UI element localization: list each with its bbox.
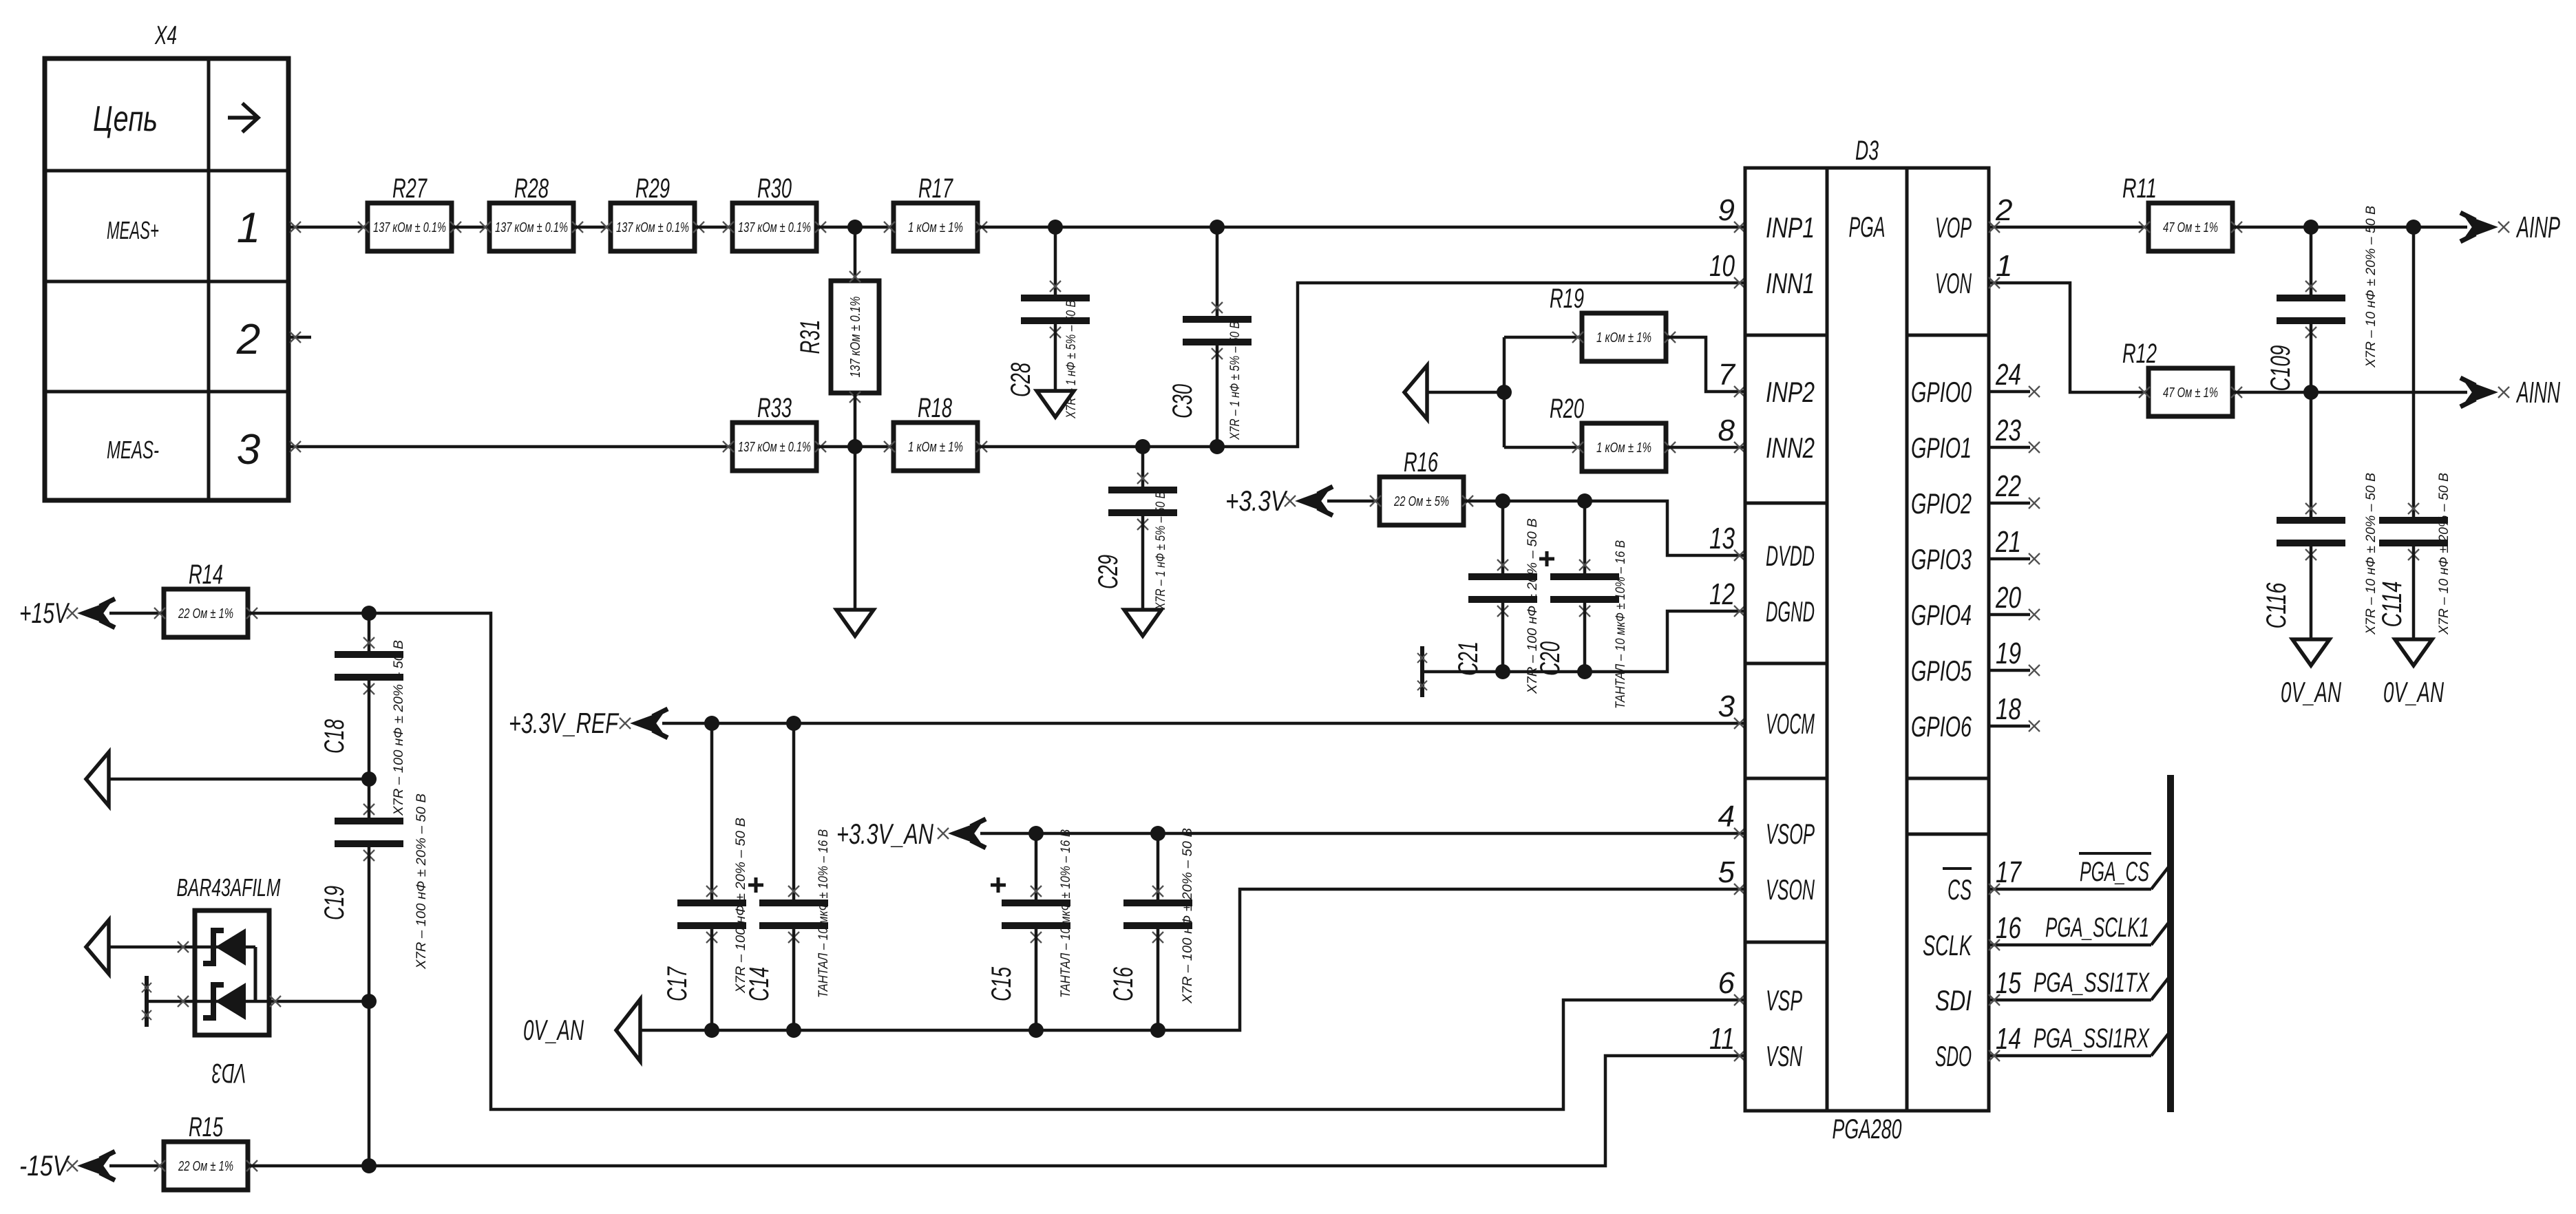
svg-text:R12: R12 [2122,339,2157,369]
svg-text:2: 2 [236,316,260,363]
resistor R31 [795,227,879,447]
pin 21 GPIO3 [1911,525,2021,575]
pin 20 GPIO4 [1911,581,2021,631]
svg-text:GPIO3: GPIO3 [1911,543,1972,575]
terminal [1417,646,1427,697]
pin 2 VOP [1935,193,2012,244]
resistor R16 [1370,447,1473,525]
X4 pin 1 wire [288,222,368,233]
svg-text:X7R – 10 нФ ± 20% – 50 В: X7R – 10 нФ ± 20% – 50 В [2364,206,2378,368]
resistor R29 [601,173,704,251]
net +3.3V_REF [509,707,1745,739]
svg-text:R31: R31 [795,320,825,354]
resistor R17 [884,173,987,251]
svg-text:MEAS-: MEAS- [107,436,159,464]
svg-text:9: 9 [1718,193,1735,227]
svg-text:X4: X4 [154,21,177,50]
net AINN [2460,376,2560,409]
wire PGA_SSI1RX [1989,1023,2171,1061]
pin 12 DGND [1709,577,1815,628]
pin 14 SDO [1935,1022,2021,1072]
svg-text:22: 22 [1995,469,2021,503]
pin 22 GPIO2 [1911,469,2021,520]
ground [1124,610,1161,636]
X4 pin 3 wire [288,441,732,452]
svg-text:SDI: SDI [1935,984,1972,1016]
svg-text:R33: R33 [757,393,792,423]
node arrow [86,920,109,974]
net +15V [19,597,164,629]
svg-text:C19: C19 [319,886,350,920]
wire [694,226,732,229]
resistor R30 [723,173,826,251]
svg-text:DGND: DGND [1766,595,1815,628]
svg-text:10: 10 [1709,249,1735,283]
svg-text:PGA_SCLK1: PGA_SCLK1 [2045,913,2149,943]
svg-text:PGA: PGA [1849,211,1886,243]
capacitor C14 [744,723,831,1030]
op-amp U1 / IC D3 PGA280 [1745,136,1989,1144]
capacitor C19 [319,779,429,1173]
svg-text:R18: R18 [918,393,953,423]
svg-text:6: 6 [1718,966,1735,1000]
svg-text:137 кОм ± 0.1%: 137 кОм ± 0.1% [738,220,811,235]
svg-text:1 кОм ± 1%: 1 кОм ± 1% [1596,440,1651,456]
svg-text:5: 5 [1718,855,1735,889]
pin 10 INN1 [1709,249,1815,299]
svg-text:C29: C29 [1093,555,1123,589]
svg-text:GPIO1: GPIO1 [1911,432,1972,464]
svg-text:R14: R14 [189,560,223,590]
pin 4 VSOP [1718,800,1815,850]
wire to ground [854,447,857,610]
capacitor C28 [1006,227,1090,419]
svg-text:2: 2 [1995,193,2012,227]
pin 7 INP2 [1718,358,1815,408]
svg-text:PGA280: PGA280 [1833,1114,1902,1144]
svg-text:DVDD: DVDD [1766,540,1815,572]
svg-text:R27: R27 [392,173,427,204]
resistor R18 [884,393,987,471]
wire AINP net [2232,220,2467,235]
svg-text:R11: R11 [2122,173,2157,204]
net AINP [2460,211,2560,244]
svg-text:1 кОм ± 1%: 1 кОм ± 1% [908,220,963,235]
svg-text:+3.3V: +3.3V [1225,484,1288,517]
svg-text:VSOP: VSOP [1766,818,1815,850]
capacitor C20 [1535,501,1628,709]
diode VD3 BAR43AFILM [109,873,369,1088]
svg-text:VON: VON [1935,267,1972,299]
svg-text:47 Ом ± 1%: 47 Ом ± 1% [2163,385,2218,401]
ground [836,610,874,636]
pin 18 GPIO6 [1911,692,2021,743]
svg-text:C14: C14 [744,967,774,1001]
pin 13 DVDD [1709,522,1815,572]
svg-text:22 Ом ± 1%: 22 Ом ± 1% [178,606,233,621]
capacitor C21 [1453,501,1540,694]
svg-text:0V_AN: 0V_AN [523,1014,584,1046]
svg-text:C16: C16 [1108,966,1139,1001]
wire [452,226,489,229]
svg-text:VOP: VOP [1935,211,1972,244]
resistor R12 [2122,339,2242,416]
wire INN1 net [977,277,1745,454]
svg-text:AINN: AINN [2515,376,2560,409]
resistor R28 [480,173,583,251]
pin 9 INP1 [1718,193,1815,244]
resistor R33 [723,393,826,471]
svg-text:C15: C15 [986,966,1017,1001]
svg-text:R28: R28 [514,173,549,204]
svg-text:VSP: VSP [1766,984,1802,1016]
connector X4 [45,21,288,500]
svg-text:INP2: INP2 [1766,376,1815,408]
svg-text:X7R – 100 нФ ± 20% – 50 В: X7R – 100 нФ ± 20% – 50 В [392,640,406,816]
svg-text:X7R – 10 нФ ± 20% – 50 В: X7R – 10 нФ ± 20% – 50 В [2437,473,2451,635]
svg-text:VSON: VSON [1766,873,1815,906]
svg-text:137 кОм ± 0.1%: 137 кОм ± 0.1% [495,220,568,235]
svg-text:R20: R20 [1550,394,1584,424]
svg-text:GPIO4: GPIO4 [1911,599,1972,631]
svg-text:3: 3 [1718,690,1735,723]
svg-text:24: 24 [1995,358,2021,392]
pin 6 VSP [1718,966,1802,1016]
net -15V [19,1149,164,1182]
svg-text:GPIO6: GPIO6 [1911,710,1972,743]
pin 15 SDI [1935,966,2021,1016]
svg-text:VD3: VD3 [212,1058,246,1088]
svg-text:C116: C116 [2261,582,2292,629]
bus [2167,775,2174,1112]
svg-text:8: 8 [1718,414,1735,447]
capacitor C18 [319,613,406,816]
resistor R27 [358,173,461,251]
svg-text:X7R – 1 нФ ± 5% – 50 В: X7R – 1 нФ ± 5% – 50 В [1228,321,1243,440]
capacitor C116 [2261,392,2378,639]
svg-text:GPIO0: GPIO0 [1911,376,1972,408]
svg-text:AINP: AINP [2515,211,2560,244]
wire PGA_SSI1TX [1989,968,2171,1005]
svg-text:+3.3V_AN: +3.3V_AN [836,818,933,850]
terminal [142,976,151,1027]
capacitor C16 [1108,828,1195,1030]
svg-text:7: 7 [1718,358,1736,392]
svg-text:13: 13 [1709,522,1735,555]
svg-text:19: 19 [1996,637,2021,670]
svg-text:BAR43AFILM: BAR43AFILM [177,873,281,902]
net +3.3V_AN [836,818,1745,850]
svg-text:X7R – 100 нФ ± 20% – 50 В: X7R – 100 нФ ± 20% – 50 В [1181,828,1195,1004]
svg-text:137 кОм ± 0.1%: 137 кОм ± 0.1% [848,297,863,378]
GPIO stubs [1989,386,2040,732]
svg-text:R30: R30 [757,173,792,204]
net 0V_AN wire to VSON [523,884,1745,1061]
svg-text:0V_AN: 0V_AN [2281,676,2341,708]
svg-text:R29: R29 [635,173,670,204]
svg-text:ТАНТАЛ – 10 мкФ ± 10% – 16 В: ТАНТАЛ – 10 мкФ ± 10% – 16 В [1614,540,1628,709]
capacitor C17 [662,723,748,1030]
svg-text:3: 3 [237,426,260,473]
svg-text:PGA_SSI1TX: PGA_SSI1TX [2034,968,2150,998]
svg-text:INP1: INP1 [1766,211,1815,244]
wire DGND net [1422,606,1745,679]
svg-text:ТАНТАЛ – 10 мкФ ± 10% – 16 В: ТАНТАЛ – 10 мкФ ± 10% – 16 В [816,829,831,998]
svg-text:23: 23 [1995,414,2021,447]
svg-text:VOCM: VOCM [1766,707,1815,740]
ground 0V_AN [2383,639,2444,708]
pin 11 VSN [1709,1022,1802,1072]
resistor R20 [1504,394,1676,471]
svg-text:C109: C109 [2266,345,2296,392]
resistor R15 [154,1112,257,1190]
wire VSP net [248,606,1745,1109]
svg-text:PGA_SSI1RX: PGA_SSI1RX [2034,1023,2150,1054]
svg-text:4: 4 [1718,800,1735,833]
svg-text:1 кОм ± 1%: 1 кОм ± 1% [1596,330,1651,345]
svg-text:C30: C30 [1168,384,1198,418]
svg-text:12: 12 [1709,577,1735,611]
svg-text:C18: C18 [319,718,350,754]
wire to R17 with node [816,220,894,235]
resistor R11 [2122,173,2242,251]
pin 8 INN2 [1718,414,1815,464]
svg-text:22 Ом ± 1%: 22 Ом ± 1% [178,1159,233,1174]
node arrow [86,752,377,806]
svg-text:18: 18 [1996,692,2021,726]
wire PGA_CS [1989,853,2171,895]
pin 5 VSON [1718,855,1815,906]
svg-text:SCLK: SCLK [1923,929,1972,961]
capacitor C15 [986,829,1073,1030]
svg-text:VSN: VSN [1766,1040,1802,1072]
svg-text:137 кОм ± 0.1%: 137 кОм ± 0.1% [373,220,446,235]
capacitor C109 [2266,206,2378,392]
svg-text:21: 21 [1995,525,2021,559]
pin 17 CS [1943,855,2022,906]
capacitor C30 [1168,227,1252,447]
svg-text:1 кОм ± 1%: 1 кОм ± 1% [908,440,963,455]
svg-text:X7R – 100 нФ ± 20% – 50 В: X7R – 100 нФ ± 20% – 50 В [414,794,429,970]
svg-text:Цепь: Цепь [93,99,158,139]
svg-text:+3.3V_REF: +3.3V_REF [509,707,620,739]
ground 0V_AN [2281,639,2341,708]
svg-text:20: 20 [1995,581,2021,615]
svg-text:SDO: SDO [1935,1040,1972,1072]
wire INN2 [1666,442,1745,453]
pin 23 GPIO1 [1911,414,2021,464]
svg-text:1: 1 [237,204,260,252]
svg-text:INN2: INN2 [1766,432,1815,464]
node arrow [1404,365,1512,419]
node MEAS- / R31 [817,439,894,454]
svg-text:ТАНТАЛ – 10 мкФ ± 10% – 16 В: ТАНТАЛ – 10 мкФ ± 10% – 16 В [1059,829,1073,998]
pin 1 VON [1935,249,2012,299]
svg-text:137 кОм ± 0.1%: 137 кОм ± 0.1% [616,220,689,235]
svg-text:+15V: +15V [19,597,70,629]
pin 24 GPIO0 [1911,358,2021,408]
svg-text:GPIO2: GPIO2 [1911,487,1972,520]
svg-text:R19: R19 [1550,284,1584,314]
svg-text:R17: R17 [918,173,953,204]
resistor R14 [154,560,257,637]
svg-text:X7R – 1 нФ ± 5% – 50 В: X7R – 1 нФ ± 5% – 50 В [1154,491,1168,610]
wire [1503,337,1506,447]
wire PGA_SCLK1 [1989,913,2171,950]
resistor R19 [1504,284,1676,361]
svg-text:11: 11 [1709,1022,1735,1056]
svg-text:D3: D3 [1855,136,1879,166]
svg-text:INN1: INN1 [1766,267,1815,299]
wire [573,226,611,229]
svg-text:X7R – 10 нФ ± 20% – 50 В: X7R – 10 нФ ± 20% – 50 В [2364,473,2378,635]
svg-text:R16: R16 [1404,447,1439,478]
svg-text:MEAS+: MEAS+ [107,216,159,244]
capacitor C29 [1093,447,1177,610]
capacitor C114 [2377,227,2451,639]
svg-text:-15V: -15V [19,1149,70,1182]
svg-text:PGA_CS: PGA_CS [2080,857,2149,887]
wire AINN net [2232,385,2467,400]
wire INP1 net [977,220,1745,235]
wire VOP [1989,222,2149,233]
svg-text:137 кОм ± 0.1%: 137 кОм ± 0.1% [738,440,811,455]
X4 pin 2 stub [288,332,311,343]
svg-text:22 Ом ± 5%: 22 Ом ± 5% [1393,494,1449,509]
ground [1037,391,1074,417]
wire VON [1989,277,2149,392]
svg-text:0V_AN: 0V_AN [2383,676,2444,708]
net +3.3V [1225,484,1380,517]
wire DVDD net [1464,493,1745,561]
svg-text:GPIO5: GPIO5 [1911,654,1972,687]
svg-text:1: 1 [1996,249,2012,283]
svg-text:R15: R15 [189,1112,224,1142]
svg-text:47 Ом ± 1%: 47 Ом ± 1% [2163,220,2218,235]
svg-text:CS: CS [1947,873,1972,906]
pin 19 GPIO5 [1911,637,2021,687]
svg-text:C114: C114 [2377,582,2407,628]
pin 3 VOCM [1718,690,1815,740]
svg-text:C17: C17 [662,966,693,1001]
wire INP2 [1666,337,1745,397]
pin 16 SCLK [1923,911,2021,961]
svg-text:C28: C28 [1006,362,1036,397]
wire VSN net [248,1050,1745,1166]
